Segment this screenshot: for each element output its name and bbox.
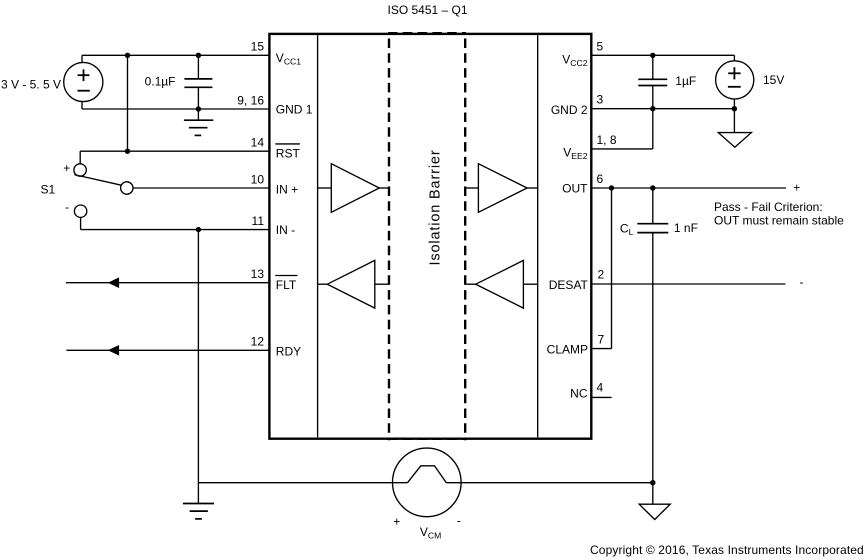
svg-text:-: - [65,200,69,214]
svg-text:ISO 5451 – Q1: ISO 5451 – Q1 [388,3,468,17]
svg-text:GND 2: GND 2 [551,103,588,117]
svg-text:4: 4 [597,380,604,394]
svg-text:3: 3 [597,93,604,107]
svg-text:0.1µF: 0.1µF [145,74,176,88]
svg-text:-: - [457,514,461,528]
svg-text:IN -: IN - [276,223,295,237]
svg-text:7: 7 [598,332,605,346]
svg-text:IN +: IN + [276,182,298,196]
svg-text:+: + [63,161,70,175]
svg-text:2: 2 [598,268,605,282]
svg-text:OUT: OUT [562,181,588,195]
svg-text:OUT must remain stable: OUT must remain stable [714,214,844,228]
svg-text:S1: S1 [41,183,56,197]
svg-text:15: 15 [251,39,265,53]
svg-text:RDY: RDY [276,344,301,358]
svg-text:Copyright © 2016, Texas Instru: Copyright © 2016, Texas Instruments Inco… [590,543,864,557]
svg-text:10: 10 [251,172,265,186]
svg-text:GND 1: GND 1 [276,103,313,117]
svg-text:NC: NC [570,387,588,401]
svg-text:Isolation Barrier: Isolation Barrier [428,150,444,266]
svg-text:+: + [393,515,400,529]
svg-text:RST: RST [276,147,301,161]
svg-text:3 V - 5. 5 V: 3 V - 5. 5 V [1,78,61,92]
svg-text:15V: 15V [763,73,784,87]
svg-text:14: 14 [251,136,265,150]
svg-text:1, 8: 1, 8 [597,133,617,147]
svg-text:11: 11 [252,214,265,228]
svg-text:DESAT: DESAT [549,278,589,292]
svg-text:12: 12 [251,335,265,349]
svg-text:+: + [793,180,800,194]
svg-text:9, 16: 9, 16 [237,93,264,107]
svg-text:FLT: FLT [276,278,297,292]
svg-text:CLAMP: CLAMP [547,343,588,357]
svg-text:13: 13 [251,267,265,281]
svg-text:Pass - Fail Criterion:: Pass - Fail Criterion: [714,200,823,214]
svg-text:1µF: 1µF [675,74,696,88]
svg-text:1 nF: 1 nF [674,221,698,235]
svg-text:6: 6 [597,172,604,186]
svg-text:5: 5 [597,39,604,53]
svg-text:-: - [800,275,804,289]
